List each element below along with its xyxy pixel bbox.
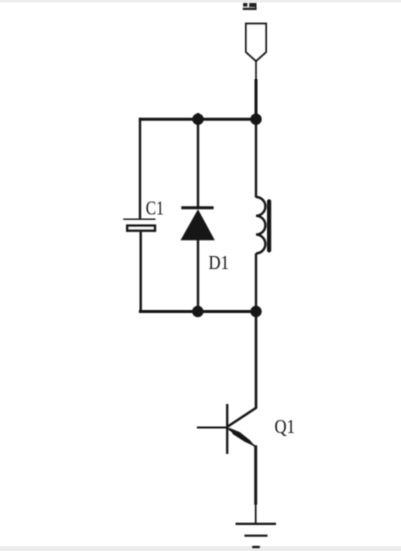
- wire: top horizontal rail: [139, 118, 256, 121]
- inductor L1 (relay coil): [256, 197, 271, 253]
- diode D1: [181, 208, 215, 241]
- capacitor C1: [123, 219, 155, 230]
- wire: main vertical to coil: [255, 118, 257, 198]
- svg-text:Q1: Q1: [275, 417, 296, 438]
- wire: left branch upper: [139, 118, 141, 220]
- node junction: bottom middle: [192, 306, 203, 317]
- wire: emitter lead: [254, 445, 257, 524]
- node junction: top middle: [192, 114, 203, 125]
- wire: left branch lower: [139, 232, 141, 313]
- wire: bottom horizontal rail: [139, 310, 256, 313]
- wire: diode bottom lead: [197, 240, 199, 313]
- wire: coil to bottom rail: [255, 253, 257, 312]
- net label (power) above connector: [243, 3, 257, 10]
- svg-text:C1: C1: [146, 199, 164, 220]
- wire: diode anode-to-rail (top): [197, 113, 199, 208]
- wire: connector pin: [255, 61, 257, 119]
- svg-text:D1: D1: [209, 253, 230, 274]
- node junction: top right: [250, 114, 261, 125]
- ground: [236, 524, 277, 547]
- transistor Q1: [197, 404, 256, 454]
- power connector J1: [246, 24, 266, 61]
- wire: collector lead: [255, 312, 258, 409]
- node junction: bottom right: [250, 306, 261, 317]
